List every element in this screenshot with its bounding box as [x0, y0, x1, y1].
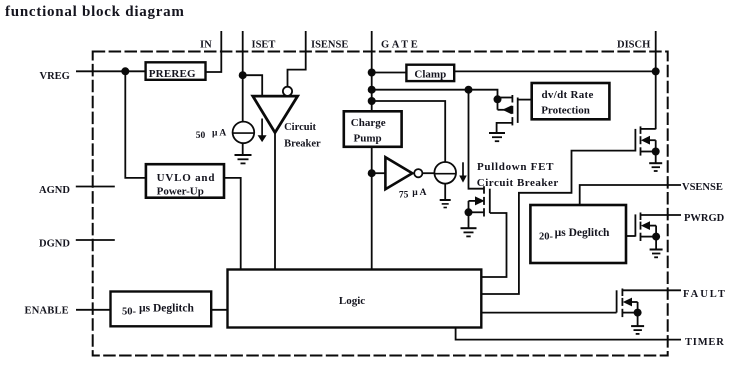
pin label VSENSE — [682, 182, 723, 193]
wire pin ISET drop — [242, 31, 244, 122]
svg-text:Protection: Protection — [541, 105, 590, 117]
junction node GATE-inverter — [368, 169, 376, 177]
svg-text:ISENSE: ISENSE — [311, 39, 348, 50]
svg-text:Circuit: Circuit — [284, 122, 316, 133]
wire 20us deglitch to PWRGD FET gate — [626, 235, 635, 237]
current source 50uA — [196, 119, 267, 144]
svg-text:20-: 20- — [539, 232, 554, 243]
junction node GATE-75uA — [368, 97, 376, 105]
pin label ISENSE — [311, 39, 348, 50]
junction node dvdt FET drain — [494, 95, 502, 103]
transistor PWRGD FET — [635, 213, 656, 250]
block dv/dt Rate Protection — [532, 83, 610, 119]
comparator circuit breaker — [253, 87, 321, 150]
wire GATE node to dvdt net — [372, 90, 498, 110]
pin label PWRGD — [684, 213, 725, 224]
ground below DISCH FET — [649, 163, 662, 171]
pin label DISCH — [617, 39, 650, 50]
ground below PWRGD FET — [650, 250, 663, 258]
block Logic — [228, 270, 482, 328]
junction node VREG-PREREG — [121, 67, 129, 75]
junction node ISET — [239, 71, 247, 79]
svg-text:Clamp: Clamp — [414, 68, 446, 80]
wire pin DISCH drop — [655, 31, 657, 129]
svg-text:50: 50 — [196, 131, 206, 141]
wire PWRGD FET drain to pin PWRGD — [641, 214, 682, 216]
wire FAULT FET drain to pin FAULT — [622, 289, 681, 291]
wire pulldown FET gate to logic — [481, 213, 506, 277]
svg-text:Circuit Breaker: Circuit Breaker — [477, 177, 559, 189]
block Charge Pump — [344, 111, 402, 147]
pin label IN — [200, 39, 212, 50]
inverter 75uA — [385, 157, 426, 200]
junction node PWRGD FET source — [652, 233, 660, 241]
wire pin ENABLE to deglitch — [76, 309, 111, 311]
junction node GATE-clamp — [368, 69, 376, 77]
wire pin AGND stub — [76, 186, 115, 188]
ground below FAULT FET — [631, 326, 644, 334]
svg-text:GATE: GATE — [381, 39, 420, 50]
wire pin VSENSE to 20us deglitch — [580, 185, 681, 205]
svg-text:TIMER: TIMER — [685, 337, 725, 348]
svg-text:PREREG: PREREG — [149, 68, 196, 80]
svg-text:AGND: AGND — [39, 185, 70, 196]
svg-text:Pump: Pump — [354, 133, 382, 145]
svg-text:Power-Up: Power-Up — [157, 185, 204, 197]
wire pin ISENSE drop — [288, 31, 306, 87]
junction node GATE-dvdt — [368, 86, 376, 94]
svg-text:Breaker: Breaker — [284, 139, 321, 150]
svg-text:DGND: DGND — [39, 239, 70, 250]
junction node dvdt net — [465, 86, 473, 94]
junction node DISCH-clamp — [652, 67, 660, 75]
svg-text:VSENSE: VSENSE — [682, 182, 723, 193]
pin label TIMER — [685, 337, 725, 348]
ground below pulldown FET — [461, 228, 477, 236]
svg-text:Pulldown FET: Pulldown FET — [477, 161, 554, 173]
svg-text:ENABLE: ENABLE — [25, 306, 69, 317]
current source 75uA — [434, 162, 466, 184]
svg-text:µs Deglitch: µs Deglitch — [555, 227, 610, 239]
wire UVLO output to logic — [224, 178, 241, 270]
ground below 50uA source — [235, 155, 252, 163]
wire 50uA source to ground — [242, 143, 244, 155]
wire clamp to DISCH node — [454, 70, 656, 72]
wire pin VREG to PREREG — [76, 70, 146, 72]
pin label ISET — [252, 39, 276, 50]
wire GATE node to clamp — [372, 72, 407, 74]
junction node DISCH FET source — [652, 148, 660, 156]
ground below dvdt FET — [489, 133, 505, 141]
wire logic to FAULT FET gate — [481, 312, 616, 314]
svg-text:IN: IN — [200, 39, 212, 50]
svg-text:DISCH: DISCH — [617, 39, 650, 50]
block 20-us Deglitch — [530, 205, 626, 263]
svg-text:Charge: Charge — [351, 117, 386, 129]
junction node FAULT FET source — [634, 309, 642, 317]
transistor pulldown FET — [469, 186, 490, 228]
wire logic to DISCH FET gate — [481, 151, 635, 294]
svg-text:75: 75 — [399, 190, 409, 200]
pin label VREG — [40, 71, 70, 82]
svg-text:µ A: µ A — [412, 188, 426, 198]
svg-text:µ A: µ A — [212, 128, 226, 138]
svg-text:VREG: VREG — [40, 71, 70, 82]
ground below 75uA source — [440, 200, 451, 208]
junction node pulldown FET source — [465, 208, 473, 216]
wire deglitch to logic — [211, 309, 227, 311]
text pulldown fet circuit breaker — [477, 161, 559, 189]
svg-text:µs Deglitch: µs Deglitch — [139, 302, 194, 314]
wire pin DGND stub — [76, 239, 115, 241]
svg-text:ISET: ISET — [252, 39, 276, 50]
transistor FAULT FET — [617, 289, 638, 326]
wire comparator output to logic — [274, 131, 276, 270]
wire dvdt net to pulldown FET drain — [469, 90, 485, 189]
wire inverter bubble to 75uA source — [422, 172, 434, 174]
wire pin GATE vertical rail — [371, 31, 373, 270]
svg-text:dv/dt Rate: dv/dt Rate — [542, 89, 594, 101]
dashed device boundary — [93, 52, 668, 356]
wire GATE node to 75uA source top — [372, 101, 446, 162]
wire VREG node to UVLO — [125, 71, 146, 178]
wire GATE node to inverter input — [372, 172, 386, 174]
svg-text:functional block diagram: functional block diagram — [5, 4, 185, 20]
block 50-us Deglitch — [111, 292, 212, 327]
block UVLO and Power-Up — [146, 164, 224, 198]
transistor DISCH FET — [635, 126, 655, 163]
block PREREG — [146, 62, 206, 80]
wire ISET to comparator input — [243, 75, 263, 96]
svg-text:FAULT: FAULT — [683, 289, 727, 300]
pin label DGND — [39, 239, 70, 250]
svg-text:Logic: Logic — [339, 295, 365, 307]
svg-text:PWRGD: PWRGD — [684, 213, 725, 224]
title — [5, 4, 185, 20]
svg-text:UVLO and: UVLO and — [157, 172, 216, 184]
wire logic to pin TIMER — [456, 328, 681, 340]
wire 75uA source to ground — [444, 184, 446, 200]
block Clamp — [406, 65, 454, 81]
pin label FAULT — [683, 289, 727, 300]
transistor dvdt FET — [497, 95, 532, 133]
pin label ENABLE — [25, 306, 69, 317]
svg-text:50-: 50- — [122, 307, 137, 318]
pin label GATE — [381, 39, 420, 50]
pin label AGND — [39, 185, 70, 196]
wire pin IN drop — [206, 31, 222, 72]
